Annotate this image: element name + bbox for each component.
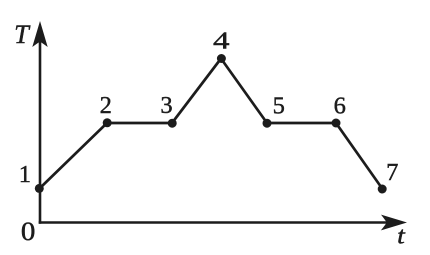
svg-text:T: T [14, 19, 31, 49]
y-axis [39, 40, 42, 224]
svg-text:7: 7 [386, 159, 398, 186]
point 3 [168, 119, 177, 128]
svg-text:3: 3 [160, 92, 172, 119]
point 6 [332, 119, 341, 128]
svg-text:6: 6 [334, 92, 346, 119]
svg-text:0: 0 [21, 216, 35, 246]
point 2 [103, 118, 112, 127]
svg-text:2: 2 [100, 92, 112, 119]
point 5 [263, 119, 272, 128]
x-axis [39, 221, 388, 224]
svg-text:4: 4 [213, 27, 230, 54]
point 1 [35, 184, 44, 193]
segment 5-6 [267, 122, 336, 125]
x-axis arrowhead [381, 215, 407, 231]
segment 6-7 [336, 123, 383, 189]
point 7 [378, 185, 387, 194]
segment 3-4 [172, 59, 221, 124]
svg-text:t: t [397, 222, 406, 249]
segment 1-2 [40, 123, 107, 188]
segment 2-3 [107, 122, 172, 125]
segment 4-5 [221, 59, 267, 124]
svg-text:1: 1 [19, 161, 31, 188]
y-axis arrowhead [32, 21, 47, 47]
point 4 [217, 54, 226, 63]
svg-text:5: 5 [273, 92, 285, 119]
